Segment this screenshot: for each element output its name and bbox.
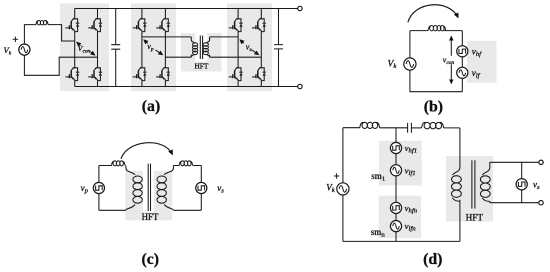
right wire lower xyxy=(459,200,461,242)
inductor Lk xyxy=(36,21,48,25)
HFT core white gap xyxy=(143,170,154,212)
wire capacitor to inductor2 xyxy=(412,127,422,129)
svg-text:Vk: Vk xyxy=(388,59,398,70)
inductor L2 xyxy=(422,122,444,128)
source vlf1 xyxy=(390,165,401,176)
source vhf xyxy=(457,46,468,57)
terminal bottom xyxy=(539,201,543,205)
svg-text:vs: vs xyxy=(217,183,224,195)
IGBT S5 xyxy=(133,18,147,32)
wire inductor2 to right corner xyxy=(444,127,460,129)
bridge3 left leg xyxy=(237,9,239,87)
vcon arrow down xyxy=(450,64,452,83)
wire bridge2 upper out xyxy=(142,36,191,38)
bottom wire xyxy=(410,91,462,93)
HFT shading xyxy=(181,33,222,72)
inductor L1 xyxy=(360,122,380,128)
right wire with vs xyxy=(200,166,202,211)
wire between xyxy=(395,153,397,165)
power-flow curved arrow xyxy=(121,143,172,159)
svg-text:(c): (c) xyxy=(142,251,160,268)
bridge 3 shading xyxy=(227,4,272,92)
source vlfn xyxy=(390,221,401,232)
wire secondary lower to bridge3 xyxy=(210,56,262,58)
svg-text:HFT: HFT xyxy=(142,212,159,222)
svg-text:vcon: vcon xyxy=(443,56,455,67)
wire inductor to bridge1 left mid xyxy=(48,25,75,41)
bridge2 left leg xyxy=(141,9,143,87)
left wire with vp xyxy=(98,166,100,211)
terminal top xyxy=(539,160,543,164)
HFT secondary winding xyxy=(480,162,490,202)
HFT core xyxy=(148,164,150,211)
top wire xyxy=(410,30,462,32)
wire bridge2 lower out xyxy=(165,56,191,58)
source vp xyxy=(93,182,104,193)
Vcon arrow upper xyxy=(77,42,81,45)
bridge3 right leg xyxy=(260,9,262,87)
vp arrow upper xyxy=(144,40,148,43)
top wire left xyxy=(343,127,360,129)
bridge2 right leg xyxy=(164,9,166,87)
left loop bottom wire xyxy=(99,209,126,211)
wire inductor to capacitor xyxy=(380,127,408,129)
source Vk xyxy=(337,183,349,195)
vs arrow upper xyxy=(240,40,244,43)
source vhf1 xyxy=(390,142,401,153)
right wire upper xyxy=(459,128,461,168)
wire sm1 to smn xyxy=(395,176,397,203)
left wire xyxy=(342,128,344,242)
HFT primary winding xyxy=(126,166,142,211)
bottom dc rail xyxy=(75,86,298,88)
middle branch top xyxy=(395,128,397,143)
svg-text:(d): (d) xyxy=(423,251,442,268)
vcon arrow up xyxy=(450,37,452,56)
svg-text:HFT: HFT xyxy=(195,61,209,70)
output terminal bottom xyxy=(298,84,302,88)
vp arrow lower xyxy=(156,50,163,55)
sources shading xyxy=(467,41,497,83)
right inductor xyxy=(179,161,192,166)
wire source bottom to bridge1 right mid xyxy=(24,55,97,75)
HFT shading xyxy=(125,171,172,221)
IGBT S3 xyxy=(65,67,79,81)
bridge 2 shading xyxy=(131,4,176,92)
svg-text:Vk: Vk xyxy=(4,45,12,57)
vs branch wire xyxy=(521,162,523,202)
IGBT S9 xyxy=(229,18,243,32)
left loop top wire xyxy=(99,165,126,167)
IGBT S4 xyxy=(88,67,102,81)
right loop top wire xyxy=(173,165,201,167)
IGBT S1 xyxy=(65,18,79,32)
HFT core white gap xyxy=(195,33,207,62)
top dc rail xyxy=(75,8,298,10)
source vhfn xyxy=(390,202,401,213)
source Vk xyxy=(19,44,30,55)
svg-text:HFT: HFT xyxy=(466,212,484,222)
Vcon arrow lower xyxy=(90,52,94,55)
power-flow curved arrow xyxy=(408,5,458,23)
bridge1 left leg xyxy=(74,9,76,87)
IGBT S12 xyxy=(252,67,266,81)
output filter capacitor xyxy=(274,9,283,87)
secondary bottom wire xyxy=(490,202,539,204)
middle branch bottom xyxy=(395,232,397,242)
svg-text:(b): (b) xyxy=(424,99,443,116)
wire secondary upper to bridge3 xyxy=(210,36,239,38)
svg-text:(a): (a) xyxy=(142,98,160,115)
bridge 1 shading xyxy=(60,4,109,92)
left wire xyxy=(409,31,411,92)
bottom wire xyxy=(343,240,460,242)
IGBT S2 xyxy=(88,18,102,32)
right loop bottom wire xyxy=(173,209,201,211)
IGBT S11 xyxy=(229,67,243,81)
wire between xyxy=(395,213,397,220)
source vs xyxy=(196,182,207,193)
source vlf xyxy=(457,67,468,78)
vs arrow lower xyxy=(252,50,259,55)
IGBT S8 xyxy=(156,67,170,81)
inductor Lk xyxy=(428,26,446,31)
HFT core xyxy=(200,36,202,60)
wire source top xyxy=(24,25,36,44)
HFT primary winding xyxy=(191,37,197,57)
HFT primary winding xyxy=(452,168,462,202)
plus polarity mark xyxy=(334,173,339,178)
smn shading xyxy=(379,196,422,238)
svg-text:vp: vp xyxy=(81,183,89,195)
IGBT S7 xyxy=(133,67,147,81)
series capacitor xyxy=(408,123,412,133)
source Vk xyxy=(404,58,416,70)
HFT secondary winding xyxy=(203,37,209,57)
dc-link capacitor xyxy=(111,9,120,87)
svg-text:Vk: Vk xyxy=(326,182,336,194)
bridge1 right leg xyxy=(97,9,99,87)
HFT secondary winding xyxy=(157,166,173,211)
right wire xyxy=(461,31,463,92)
svg-text:vs: vs xyxy=(533,180,540,192)
plus polarity mark xyxy=(13,37,18,42)
IGBT S10 xyxy=(252,18,266,32)
HFT shading xyxy=(446,156,493,222)
output terminal top xyxy=(298,6,302,10)
sm1 shading xyxy=(379,141,422,186)
HFT core xyxy=(472,160,475,208)
IGBT S6 xyxy=(156,18,170,32)
source vs xyxy=(516,179,527,190)
secondary top wire xyxy=(490,161,539,163)
left inductor xyxy=(112,161,125,166)
